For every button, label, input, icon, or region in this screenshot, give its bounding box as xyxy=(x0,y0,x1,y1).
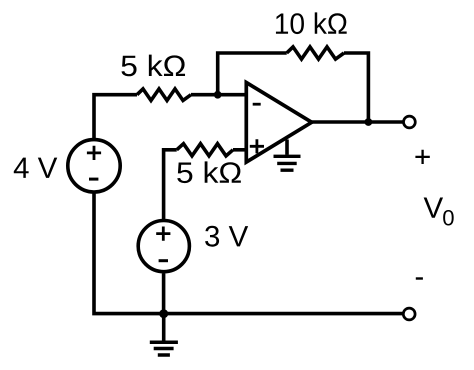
label V2 value 3 V xyxy=(205,226,248,247)
V2 minus sign xyxy=(159,259,168,262)
label R3 value 5 kOhm xyxy=(177,161,241,183)
wire: feedback left (node A up and over) xyxy=(218,53,287,95)
wire: R2 right down to output node xyxy=(344,53,368,122)
resistor R3 5k (non-inverting input) xyxy=(177,144,233,156)
ground G1 bars xyxy=(150,342,178,355)
V1 minus sign xyxy=(89,178,98,181)
terminal: output negative xyxy=(403,308,415,320)
junction node output xyxy=(365,118,373,126)
resistor R1 5k (inverting input) xyxy=(137,89,191,101)
junction node ground rail xyxy=(159,309,168,318)
label output minus xyxy=(416,277,423,279)
label output plus xyxy=(415,150,429,164)
terminal: output positive xyxy=(404,116,416,128)
wire: R3 right to op-amp non-inverting input xyxy=(233,148,246,152)
ground G1 stub xyxy=(162,314,166,341)
wire: 3V source bottom lead xyxy=(162,274,166,314)
junction node A (inverting input) xyxy=(214,91,222,99)
wire: V1 bottom lead and bottom rail to terminal xyxy=(94,193,403,314)
voltage source V2 3V circle xyxy=(138,221,189,272)
V1 plus sign xyxy=(87,146,101,160)
wire: op-amp output to terminal xyxy=(312,120,404,124)
wire: R3 left to 3V source top xyxy=(164,150,177,219)
op-amp inverting input minus sign xyxy=(253,103,261,106)
label V1 value 4 V xyxy=(14,158,57,178)
wire: V1 top lead to R1 left xyxy=(94,95,137,139)
wire: R1 right to op-amp inverting input xyxy=(191,93,246,97)
resistor R2 10k feedback xyxy=(287,47,344,59)
op-amp non-inverting input plus sign xyxy=(250,139,264,153)
voltage source V1 4V circle xyxy=(68,140,120,192)
op-amp U1 triangle xyxy=(246,83,311,163)
label R2 value 10 kOhm xyxy=(276,12,347,34)
op-amp ground bars xyxy=(274,156,301,170)
V2 plus sign xyxy=(156,227,170,241)
op-amp ground stub xyxy=(285,140,289,155)
label R1 value 5 kOhm xyxy=(121,55,185,77)
label output V0 xyxy=(424,198,443,218)
